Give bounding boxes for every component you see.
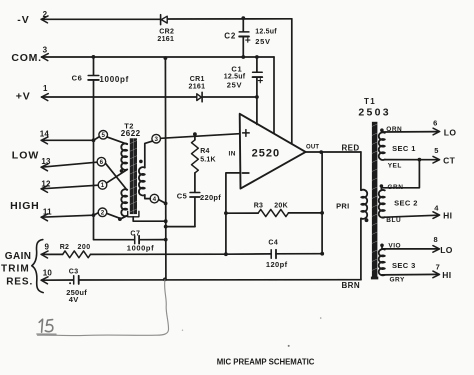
svg-text:5.1K: 5.1K — [200, 156, 216, 163]
svg-text:+V: +V — [16, 91, 31, 103]
svg-text:120pf: 120pf — [266, 260, 288, 269]
svg-text:4: 4 — [153, 196, 157, 203]
svg-text:RES.: RES. — [6, 276, 33, 287]
svg-text:R2: R2 — [60, 244, 70, 251]
svg-text:-V: -V — [17, 14, 30, 26]
svg-text:T1: T1 — [364, 97, 376, 106]
svg-text:20K: 20K — [274, 202, 288, 209]
svg-text:R4: R4 — [200, 148, 210, 155]
svg-text:RED: RED — [342, 144, 360, 153]
svg-text:10: 10 — [43, 268, 53, 277]
svg-text:1: 1 — [43, 84, 48, 93]
svg-text:COM.: COM. — [11, 52, 41, 64]
svg-text:MIC PREAMP SCHEMATIC: MIC PREAMP SCHEMATIC — [217, 357, 315, 366]
svg-text:LO: LO — [440, 245, 453, 255]
svg-text:C5: C5 — [177, 191, 188, 200]
svg-text:1000pf: 1000pf — [127, 244, 154, 253]
svg-text:SEC 1: SEC 1 — [392, 144, 416, 153]
svg-text:12.5uf: 12.5uf — [255, 29, 277, 36]
svg-text:2503: 2503 — [358, 107, 391, 119]
svg-text:IN: IN — [229, 151, 236, 158]
svg-text:2: 2 — [43, 10, 48, 19]
svg-text:12: 12 — [41, 180, 51, 189]
svg-text:R3: R3 — [254, 202, 264, 209]
svg-text:2161: 2161 — [157, 36, 174, 43]
svg-text:C7: C7 — [130, 231, 140, 238]
svg-text:5: 5 — [101, 132, 105, 139]
svg-text:C3: C3 — [69, 268, 79, 275]
svg-text:BLU: BLU — [386, 217, 401, 224]
svg-text:13: 13 — [41, 157, 51, 166]
svg-text:11: 11 — [43, 207, 52, 216]
svg-text:5: 5 — [434, 146, 438, 155]
svg-text:CR2: CR2 — [159, 29, 174, 36]
svg-text:25V: 25V — [227, 81, 242, 90]
svg-text:9: 9 — [45, 243, 50, 252]
svg-text:C2: C2 — [224, 31, 236, 40]
svg-text:3: 3 — [43, 46, 48, 55]
svg-text:C4: C4 — [268, 239, 278, 246]
svg-text:LOW: LOW — [12, 150, 40, 162]
svg-text:SEC 3: SEC 3 — [392, 261, 416, 270]
svg-text:C1: C1 — [231, 64, 242, 73]
svg-text:GAIN: GAIN — [5, 251, 32, 262]
svg-text:OUT: OUT — [306, 145, 319, 151]
svg-text:1: 1 — [101, 182, 105, 189]
svg-text:2622: 2622 — [121, 129, 141, 138]
svg-text:CT: CT — [443, 156, 456, 166]
svg-text:3: 3 — [154, 136, 158, 143]
svg-text:TRIM: TRIM — [1, 264, 30, 275]
svg-text:14: 14 — [40, 130, 50, 139]
svg-text:6: 6 — [100, 159, 104, 166]
svg-text:LO: LO — [444, 128, 457, 138]
svg-text:4V: 4V — [69, 295, 79, 304]
svg-text:HI: HI — [442, 270, 451, 280]
svg-text:220pf: 220pf — [200, 193, 221, 202]
svg-text:2520: 2520 — [252, 148, 280, 160]
svg-text:HI: HI — [443, 211, 452, 221]
svg-text:GRN: GRN — [388, 184, 404, 191]
svg-text:1000pf: 1000pf — [99, 75, 129, 84]
svg-text:8: 8 — [434, 235, 438, 244]
svg-text:7: 7 — [436, 262, 440, 271]
svg-text:BRN: BRN — [342, 281, 361, 290]
svg-text:200: 200 — [78, 244, 91, 251]
svg-text:GRY: GRY — [390, 276, 406, 283]
svg-text:YEL: YEL — [388, 163, 402, 170]
svg-text:12.5uf: 12.5uf — [224, 74, 246, 81]
svg-text:2161: 2161 — [189, 83, 206, 90]
svg-text:VIO: VIO — [388, 242, 401, 249]
svg-text:PRI: PRI — [336, 201, 349, 210]
svg-text:ORN: ORN — [386, 126, 402, 133]
svg-text:6: 6 — [433, 118, 437, 127]
svg-text:CR1: CR1 — [190, 76, 205, 83]
svg-text:C6: C6 — [72, 73, 83, 82]
svg-text:HIGH: HIGH — [10, 200, 39, 212]
svg-text:SEC 2: SEC 2 — [394, 199, 418, 208]
svg-text:25V: 25V — [255, 37, 270, 46]
svg-text:2: 2 — [101, 210, 105, 217]
